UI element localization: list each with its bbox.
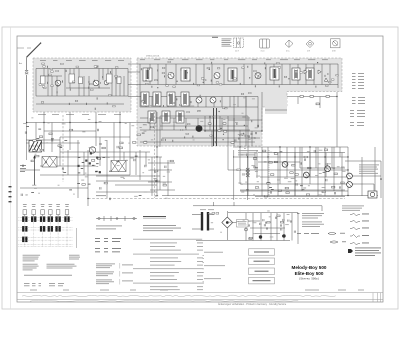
secondary horizontal wires: [60, 110, 348, 197]
page number: [212, 37, 218, 38]
power rail top: [193, 202, 322, 244]
coil data table: [222, 39, 232, 47]
technical note line: [24, 274, 72, 277]
filter electrolytic C90b: [282, 234, 285, 237]
legend text block 1: [297, 213, 324, 218]
svg-text:Ant: Ant: [19, 62, 22, 65]
measurement note: [342, 206, 364, 211]
switch wiring dotted: [19, 216, 77, 248]
transistor T6: [196, 97, 202, 103]
filter electrolytic C91: [245, 228, 248, 231]
band switch contacts: [77, 152, 100, 173]
legend text block 2: [302, 222, 324, 227]
IF transformer Fi2: [181, 68, 190, 81]
option box 1: [249, 249, 275, 255]
voltage table right margin: [350, 73, 365, 126]
AM filter Fi9: [167, 92, 175, 106]
AM filter Fi7: [141, 92, 149, 106]
chassis dashed vertical 1: [62, 115, 64, 182]
left mid horizontal wires: [20, 131, 160, 192]
legend dashes row: [297, 232, 319, 235]
antenna: [27, 42, 42, 70]
option box 3: [249, 268, 275, 274]
AM detector branch: [287, 96, 338, 109]
parts list heading: [143, 216, 166, 218]
address block: [143, 225, 181, 231]
tuner interstage wires: [40, 64, 140, 97]
mid column values: [120, 263, 133, 285]
mid-section vertical wires: [27, 92, 375, 206]
IF transformer Fi5: [292, 68, 300, 80]
module boundary dashed: [88, 198, 345, 200]
IF stage verticals: [146, 64, 330, 130]
revision notes row 2: [30, 300, 298, 301]
notes block mid 2: [47, 264, 77, 269]
dial cord caption: [96, 226, 122, 230]
electrolytic C45: [196, 125, 203, 132]
output coupling electrolytic: [368, 191, 377, 198]
svg-text:Melody-Boy 500: Melody-Boy 500: [292, 265, 327, 270]
transistor T1: [55, 80, 61, 86]
label S1457: [96, 194, 106, 197]
wire bus tuner A: [36, 69, 128, 105]
transistor T3: [168, 73, 174, 79]
power supply parts: [247, 215, 296, 239]
discrete parts mid-section: [21, 126, 344, 200]
detector diodes: [304, 70, 328, 81]
filter pictogram F2: [260, 39, 270, 48]
option box 2: [249, 258, 275, 264]
revision notes (handwritten): [22, 295, 336, 296]
drawing frame: [17, 36, 383, 302]
transistor T12 output: [347, 173, 353, 179]
tuner output stubs: [44, 112, 120, 123]
power supply verticals: [246, 213, 292, 241]
AM filter Fi12: [162, 111, 170, 123]
transistor T13 output: [347, 182, 353, 188]
AM input wire: [27, 118, 150, 123]
IF amplifier module outline: [137, 58, 342, 146]
AM coil symbol: [246, 168, 250, 177]
label transformer: [200, 208, 214, 211]
trimmer C5: [79, 77, 83, 84]
notes block left 2: [23, 264, 39, 271]
order numbers: [24, 283, 64, 286]
fold line: [10, 27, 12, 309]
demodulator parts: [208, 111, 259, 143]
legend battery symbol: [348, 248, 381, 256]
transistor T5: [255, 73, 261, 79]
IF chain vertical pair: [214, 108, 217, 146]
transistor T11: [325, 166, 331, 172]
transistor T2b: [104, 80, 109, 85]
audio bus: [160, 116, 378, 196]
filter pictogram F4: [306, 40, 314, 48]
semiconductor list: [133, 239, 204, 290]
transistor T7: [210, 97, 216, 103]
tuner A small parts: [39, 63, 118, 110]
svg-text:(Stereo 500a): (Stereo 500a): [299, 276, 320, 280]
svg-text:2 Bl: 2 Bl: [332, 51, 336, 53]
speaker feed wires: [345, 161, 381, 198]
option box 4: [249, 278, 275, 284]
svg-text:1 R: 1 R: [307, 51, 311, 53]
notes block left: [23, 255, 40, 261]
AM filter Fi11: [148, 111, 156, 123]
push button heads: [23, 204, 69, 216]
filter pictogram F1: [234, 38, 244, 48]
IF transformer Fi6: [306, 68, 314, 80]
svg-text:Änderungen vorbehalten · Print: Änderungen vorbehalten · Printed in Germ…: [218, 303, 287, 306]
IF module small parts: [141, 61, 338, 141]
chassis dashed vertical 2: [154, 112, 156, 198]
bridge rectifier: [222, 211, 243, 240]
IF transformer Fi1: [143, 68, 152, 81]
filter pictogram F3: [285, 40, 293, 48]
svg-text:Elite-Boy 500: Elite-Boy 500: [295, 271, 324, 276]
svg-text:29301-003.01: 29301-003.01: [146, 56, 160, 58]
secondary vertical wires: [36, 96, 342, 200]
scattered value labels: [23, 98, 345, 238]
tuning capacitor gang: [29, 141, 42, 153]
junction dots: [26, 122, 382, 199]
switch contact blocks: [22, 216, 70, 242]
tuner A labels below: [38, 113, 121, 116]
label wave ranges: [20, 165, 26, 172]
binder marks: [9, 186, 12, 202]
transistor T9: [282, 161, 288, 167]
dial cord drawing: [96, 216, 137, 221]
antenna coupling coil L1: [25, 70, 28, 122]
mid column notes: [96, 264, 115, 285]
IF supply rails: [140, 64, 338, 142]
filter electrolytic C90: [259, 235, 262, 238]
AM filter Fi8: [153, 92, 161, 106]
margin tick: [17, 47, 31, 49]
mains transformer: [192, 212, 219, 231]
oscillator coil pack 2: [111, 161, 126, 172]
table Bd values 2: [95, 248, 121, 252]
transistor T8 mixer: [89, 147, 95, 153]
oscillator coil pack 1: [42, 157, 57, 168]
transistor T2: [93, 80, 99, 86]
revision column labels: [30, 289, 364, 292]
trimmer C9: [117, 77, 121, 84]
transistor T4: [214, 73, 220, 79]
notes block mid: [69, 255, 80, 260]
AGC line: [55, 112, 348, 196]
FM tuner module outline: [33, 58, 131, 112]
coil L2: [41, 76, 46, 84]
footnote mid: [238, 150, 258, 155]
IF transformer Fi3: [228, 68, 237, 81]
component value labels: [40, 59, 328, 61]
revision strip: [17, 293, 383, 302]
AM filter Fi10: [181, 92, 189, 106]
power label box: [237, 220, 249, 228]
AM filter Fi13: [176, 111, 184, 123]
right margin text block: [359, 165, 379, 174]
legend lens symbols: [328, 232, 346, 243]
ratio detector Fi4: [270, 67, 279, 80]
print note block: [203, 252, 226, 282]
coil L4: [107, 74, 113, 83]
transistor T10: [303, 172, 309, 178]
table Bd values 1: [95, 238, 121, 242]
legend symbols: [350, 213, 369, 245]
filter pictogram F5: [331, 39, 341, 48]
chassis dashed vertical 3: [268, 150, 270, 198]
dial pointer arrow: [33, 155, 36, 185]
coil L3: [69, 74, 75, 83]
